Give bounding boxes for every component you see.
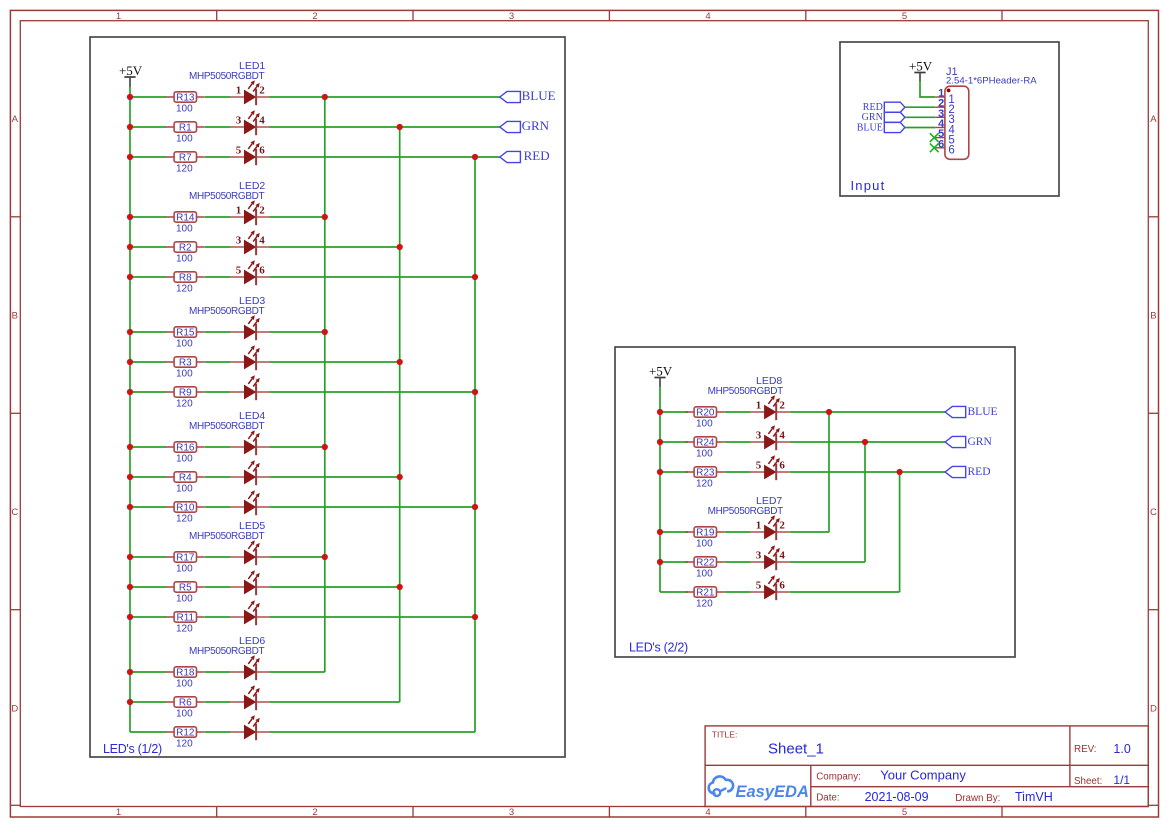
wire — [130, 126, 166, 128]
svg-text:5: 5 — [236, 264, 242, 276]
svg-text:MHP5050RGBDT: MHP5050RGBDT — [189, 531, 265, 542]
svg-text:R11: R11 — [176, 613, 194, 624]
block LED's (1/2) — [90, 37, 565, 757]
value 120 — [176, 163, 193, 174]
svg-text:+5V: +5V — [119, 63, 143, 78]
svg-text:2: 2 — [779, 399, 785, 411]
wire GRN bus — [399, 127, 401, 702]
value 100 — [176, 133, 193, 144]
svg-text:4: 4 — [705, 807, 710, 818]
junction — [657, 439, 663, 445]
svg-text:LED's (1/2): LED's (1/2) — [103, 742, 162, 756]
pin numbers 3,4 — [236, 114, 266, 126]
pin numbers 1,2 — [756, 399, 786, 411]
svg-text:R20: R20 — [696, 408, 715, 419]
svg-text:100: 100 — [696, 538, 713, 549]
wire — [270, 216, 325, 218]
svg-text:100: 100 — [176, 563, 193, 574]
resistor R10 — [166, 502, 205, 514]
wire net GRN — [270, 126, 500, 128]
wire — [130, 671, 166, 673]
svg-text:TimVH: TimVH — [1015, 790, 1053, 804]
net flag GRN — [862, 112, 905, 123]
wire — [205, 506, 231, 508]
wire — [130, 616, 166, 618]
wire — [270, 556, 325, 558]
svg-text:120: 120 — [176, 283, 193, 294]
resistor R15 — [166, 327, 205, 339]
svg-text:1/1: 1/1 — [1113, 773, 1130, 787]
wire +5V to pin 1 — [920, 81, 935, 97]
value 120 — [176, 513, 193, 524]
wire — [205, 701, 231, 703]
svg-text:120: 120 — [696, 598, 713, 609]
value 100 — [176, 223, 193, 234]
wire — [270, 391, 476, 393]
svg-text:C: C — [11, 507, 18, 518]
svg-text:GRN: GRN — [968, 436, 993, 448]
svg-text:120: 120 — [696, 478, 713, 489]
resistor R1 — [166, 122, 205, 134]
resistor R20 — [686, 407, 725, 419]
resistor R23 — [686, 467, 725, 479]
svg-text:R10: R10 — [176, 503, 195, 514]
svg-text:120: 120 — [176, 623, 193, 634]
svg-text:4: 4 — [259, 234, 265, 246]
svg-text:R17: R17 — [176, 553, 195, 564]
svg-text:5: 5 — [756, 459, 762, 471]
svg-text:R7: R7 — [179, 153, 192, 164]
svg-text:1: 1 — [236, 204, 242, 216]
svg-text:A: A — [12, 114, 19, 125]
wire — [270, 246, 400, 248]
svg-text:R23: R23 — [696, 468, 715, 479]
no-connect flag — [930, 133, 939, 142]
power +5V — [649, 364, 673, 388]
LED LED5 MHP5050RGBDT — [189, 520, 270, 625]
svg-text:A: A — [1150, 114, 1157, 125]
value 100 — [176, 103, 193, 114]
wire — [660, 411, 688, 413]
svg-text:R2: R2 — [179, 243, 192, 254]
resistor R2 — [166, 242, 205, 254]
svg-text:120: 120 — [176, 398, 193, 409]
value 120 — [176, 738, 193, 749]
svg-text:GRN: GRN — [522, 118, 550, 133]
pin numbers 5,6 — [756, 459, 786, 471]
svg-text:3: 3 — [756, 429, 762, 441]
wire — [725, 591, 751, 593]
EasyEDA logo — [709, 776, 809, 801]
svg-text:100: 100 — [176, 103, 193, 114]
resistor R14 — [166, 212, 205, 224]
resistor R24 — [686, 437, 725, 449]
wire — [205, 556, 231, 558]
wire — [660, 471, 688, 473]
svg-text:5: 5 — [902, 807, 907, 818]
svg-text:Sheet_1: Sheet_1 — [768, 741, 824, 758]
value 100 — [176, 708, 193, 719]
svg-text:6: 6 — [779, 459, 785, 471]
junction — [322, 444, 328, 450]
wire — [205, 276, 231, 278]
pin numbers 3,4 — [756, 549, 786, 561]
net flag GRN — [500, 118, 550, 133]
LED LED6 MHP5050RGBDT — [189, 635, 270, 740]
svg-text:100: 100 — [176, 708, 193, 719]
svg-text:R5: R5 — [179, 583, 192, 594]
wire — [270, 731, 476, 733]
wire — [130, 276, 166, 278]
svg-text:MHP5050RGBDT: MHP5050RGBDT — [189, 71, 265, 82]
wire — [790, 561, 865, 563]
junction — [657, 409, 663, 415]
value 120 — [696, 478, 713, 489]
svg-text:2: 2 — [312, 11, 317, 22]
wire — [205, 586, 231, 588]
wire — [725, 411, 751, 413]
pin numbers 5,6 — [756, 579, 786, 591]
block LED's (2/2) — [615, 347, 1015, 657]
svg-text:REV:: REV: — [1074, 744, 1097, 755]
junction — [657, 559, 663, 565]
value 100 — [176, 483, 193, 494]
junction — [127, 244, 133, 250]
svg-text:Date:: Date: — [816, 793, 839, 804]
svg-text:5: 5 — [236, 144, 242, 156]
svg-text:1: 1 — [116, 807, 121, 818]
junction — [657, 469, 663, 475]
connector J1 2.54-1*6PHeader-RA — [935, 66, 1037, 159]
junction — [127, 584, 133, 590]
wire — [130, 446, 166, 448]
pin numbers 3,4 — [756, 429, 786, 441]
svg-text:120: 120 — [176, 513, 193, 524]
LED LED3 MHP5050RGBDT — [189, 295, 270, 400]
net flag GRN — [945, 436, 992, 448]
svg-text:R24: R24 — [696, 438, 715, 449]
svg-text:120: 120 — [176, 163, 193, 174]
wire — [130, 731, 166, 733]
svg-text:2: 2 — [259, 204, 265, 216]
svg-text:3: 3 — [236, 234, 242, 246]
svg-text:R4: R4 — [179, 473, 192, 484]
wire — [205, 361, 231, 363]
svg-text:6: 6 — [779, 579, 785, 591]
svg-text:MHP5050RGBDT: MHP5050RGBDT — [189, 191, 265, 202]
resistor R6 — [166, 697, 205, 709]
junction — [127, 504, 133, 510]
svg-text:2.54-1*6PHeader-RA: 2.54-1*6PHeader-RA — [946, 75, 1037, 86]
svg-text:BLUE: BLUE — [522, 88, 556, 103]
resistor R18 — [166, 667, 205, 679]
wire — [130, 96, 166, 98]
power +5V — [119, 63, 143, 87]
LED LED1 MHP5050RGBDT — [189, 60, 270, 165]
svg-text:100: 100 — [696, 568, 713, 579]
svg-text:1.0: 1.0 — [1113, 742, 1130, 756]
wire — [205, 616, 231, 618]
svg-text:2: 2 — [312, 807, 317, 818]
value 100 — [176, 368, 193, 379]
resistor R12 — [166, 727, 205, 739]
wire — [725, 441, 751, 443]
pin numbers 1,2 — [756, 519, 786, 531]
wire — [205, 156, 231, 158]
resistor R19 — [686, 527, 725, 539]
junction — [897, 469, 903, 475]
junction — [472, 154, 478, 160]
junction — [127, 444, 133, 450]
svg-text:4: 4 — [259, 114, 265, 126]
title block — [705, 726, 1148, 807]
svg-text:C: C — [1150, 507, 1157, 518]
svg-text:B: B — [1150, 311, 1156, 322]
svg-text:Your Company: Your Company — [880, 767, 966, 782]
junction — [472, 389, 478, 395]
svg-text:100: 100 — [176, 133, 193, 144]
svg-text:+5V: +5V — [909, 59, 933, 74]
junction — [397, 124, 403, 130]
junction — [472, 274, 478, 280]
wire — [130, 246, 166, 248]
svg-text:100: 100 — [176, 368, 193, 379]
no-connect flag — [930, 143, 939, 152]
net flag RED — [500, 148, 550, 163]
junction — [127, 669, 133, 675]
svg-text:4: 4 — [705, 11, 710, 22]
value 120 — [696, 598, 713, 609]
svg-text:MHP5050RGBDT: MHP5050RGBDT — [189, 421, 265, 432]
svg-text:1: 1 — [236, 84, 242, 96]
junction — [397, 584, 403, 590]
svg-text:R6: R6 — [179, 698, 192, 709]
svg-text:TITLE:: TITLE: — [712, 730, 738, 740]
wire +5V bus — [659, 387, 661, 592]
wire — [130, 156, 166, 158]
svg-text:LED's (2/2): LED's (2/2) — [629, 641, 688, 655]
value 100 — [696, 418, 713, 429]
svg-text:R15: R15 — [176, 328, 195, 339]
junction — [397, 244, 403, 250]
svg-text:Input: Input — [851, 178, 886, 193]
svg-text:100: 100 — [176, 453, 193, 464]
junction — [127, 359, 133, 365]
value 100 — [176, 563, 193, 574]
resistor R8 — [166, 272, 205, 284]
wire — [205, 126, 231, 128]
junction — [322, 329, 328, 335]
wire BLUE bus — [828, 412, 830, 532]
svg-text:6: 6 — [259, 264, 265, 276]
svg-text:1: 1 — [756, 519, 762, 531]
value 120 — [176, 398, 193, 409]
wire — [130, 556, 166, 558]
svg-text:2: 2 — [779, 519, 785, 531]
junction — [127, 554, 133, 560]
svg-text:100: 100 — [176, 338, 193, 349]
resistor R21 — [686, 587, 725, 599]
svg-text:2021-08-09: 2021-08-09 — [865, 790, 929, 804]
svg-text:Drawn By:: Drawn By: — [955, 793, 1000, 804]
junction — [472, 614, 478, 620]
pin numbers 5,6 — [236, 264, 266, 276]
svg-text:MHP5050RGBDT: MHP5050RGBDT — [189, 646, 265, 657]
svg-text:D: D — [11, 703, 18, 714]
svg-text:1: 1 — [756, 399, 762, 411]
net flag BLUE — [857, 122, 905, 133]
wire net BLUE — [905, 127, 935, 129]
wire — [205, 446, 231, 448]
svg-text:MHP5050RGBDT: MHP5050RGBDT — [708, 386, 784, 397]
LED LED2 MHP5050RGBDT — [189, 180, 270, 285]
resistor R11 — [166, 612, 205, 624]
svg-text:EasyEDA: EasyEDA — [736, 783, 809, 801]
wire — [205, 96, 231, 98]
svg-text:R3: R3 — [179, 358, 192, 369]
svg-text:R8: R8 — [179, 273, 192, 284]
svg-text:6: 6 — [259, 144, 265, 156]
net flag BLUE — [500, 88, 556, 103]
value 100 — [696, 538, 713, 549]
wire — [205, 246, 231, 248]
value 100 — [696, 568, 713, 579]
junction — [322, 214, 328, 220]
junction — [657, 529, 663, 535]
resistor R13 — [166, 92, 205, 104]
svg-text:R21: R21 — [696, 588, 715, 599]
value 100 — [176, 678, 193, 689]
junction — [127, 474, 133, 480]
svg-text:BLUE: BLUE — [968, 406, 998, 418]
value 100 — [696, 448, 713, 459]
resistor R9 — [166, 387, 205, 399]
resistor R7 — [166, 152, 205, 164]
svg-text:RED: RED — [524, 148, 550, 163]
power +5V — [909, 59, 933, 82]
svg-text:3: 3 — [756, 549, 762, 561]
svg-text:R22: R22 — [696, 558, 715, 569]
LED LED7 MHP5050RGBDT — [708, 495, 790, 600]
block Input — [840, 42, 1059, 196]
svg-text:B: B — [12, 311, 18, 322]
wire — [205, 671, 231, 673]
wire RED bus — [474, 157, 476, 732]
svg-text:R12: R12 — [176, 728, 195, 739]
svg-text:6: 6 — [948, 145, 954, 157]
junction — [127, 274, 133, 280]
wire net BLUE — [270, 96, 500, 98]
svg-text:5: 5 — [902, 11, 907, 22]
svg-text:3: 3 — [236, 114, 242, 126]
wire net GRN — [905, 116, 935, 118]
wire — [270, 671, 325, 673]
svg-text:MHP5050RGBDT: MHP5050RGBDT — [708, 506, 784, 517]
value 100 — [176, 338, 193, 349]
wire GRN bus — [864, 442, 866, 562]
wire — [270, 616, 476, 618]
wire — [725, 531, 751, 533]
svg-text:4: 4 — [779, 429, 785, 441]
wire — [270, 701, 400, 703]
resistor R4 — [166, 472, 205, 484]
wire net BLUE — [790, 411, 945, 413]
wire — [205, 216, 231, 218]
net flag RED — [945, 466, 990, 478]
wire — [270, 476, 400, 478]
svg-text:RED: RED — [968, 466, 991, 478]
svg-text:D: D — [1150, 703, 1157, 714]
value 120 — [176, 283, 193, 294]
LED LED4 MHP5050RGBDT — [189, 410, 270, 515]
wire — [130, 506, 166, 508]
wire BLUE bus — [324, 97, 326, 672]
value 120 — [176, 623, 193, 634]
value 100 — [176, 453, 193, 464]
wire — [130, 361, 166, 363]
pin numbers 5,6 — [236, 144, 266, 156]
junction — [322, 554, 328, 560]
junction — [127, 389, 133, 395]
svg-text:R14: R14 — [176, 213, 195, 224]
wire — [790, 531, 829, 533]
resistor R3 — [166, 357, 205, 369]
wire — [270, 446, 325, 448]
junction — [127, 124, 133, 130]
wire — [725, 471, 751, 473]
svg-text:100: 100 — [696, 448, 713, 459]
svg-text:100: 100 — [696, 418, 713, 429]
junction — [826, 409, 832, 415]
wire — [130, 331, 166, 333]
junction — [127, 154, 133, 160]
svg-text:120: 120 — [176, 738, 193, 749]
pin numbers 1,2 — [236, 204, 266, 216]
svg-text:R16: R16 — [176, 443, 195, 454]
svg-text:2: 2 — [259, 84, 265, 96]
junction — [862, 439, 868, 445]
svg-text:100: 100 — [176, 253, 193, 264]
junction — [127, 699, 133, 705]
wire — [205, 731, 231, 733]
wire — [660, 441, 688, 443]
wire — [205, 476, 231, 478]
resistor R22 — [686, 557, 725, 569]
svg-text:Company:: Company: — [816, 771, 861, 782]
svg-text:3: 3 — [509, 11, 514, 22]
value 100 — [176, 253, 193, 264]
wire +5V bus — [129, 87, 131, 732]
wire — [270, 361, 400, 363]
svg-text:R9: R9 — [179, 388, 192, 399]
wire — [130, 586, 166, 588]
junction — [127, 614, 133, 620]
wire — [270, 506, 476, 508]
wire net GRN — [790, 441, 945, 443]
wire — [130, 216, 166, 218]
junction — [397, 359, 403, 365]
junction — [472, 504, 478, 510]
wire net RED — [270, 156, 500, 158]
svg-text:5: 5 — [756, 579, 762, 591]
resistor R5 — [166, 582, 205, 594]
wire — [130, 476, 166, 478]
wire — [205, 331, 231, 333]
resistor R17 — [166, 552, 205, 564]
wire — [660, 591, 688, 593]
wire — [270, 276, 476, 278]
svg-text:+5V: +5V — [649, 364, 673, 379]
